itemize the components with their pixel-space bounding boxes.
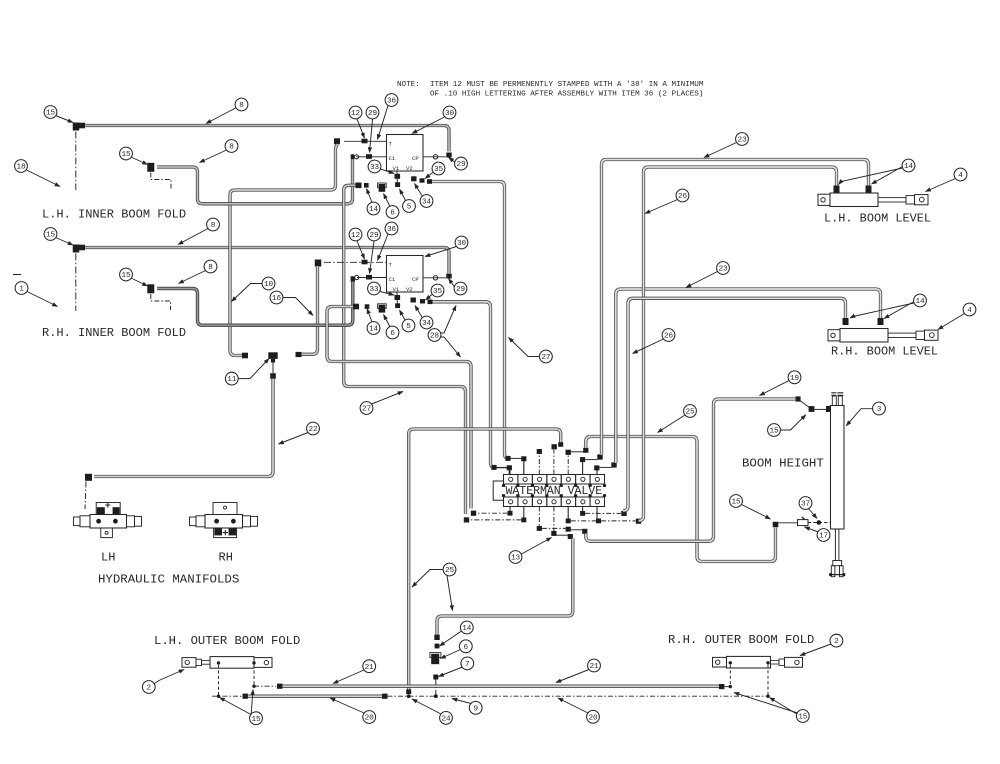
svg-text:C1: C1 bbox=[389, 155, 396, 162]
bubble 19 bbox=[788, 371, 801, 384]
bubble 27a bbox=[360, 402, 373, 415]
leader 21a bbox=[333, 670, 364, 684]
hose 21 left end fitting bbox=[277, 684, 282, 689]
dashed drop RH port1 bbox=[729, 665, 731, 685]
leader 15b bbox=[131, 157, 148, 165]
bubble 14a bbox=[367, 202, 380, 215]
dash-dot riser port4 bottom bbox=[553, 507, 555, 532]
bubble 15f bbox=[250, 712, 263, 725]
hose 26a port fitting at cylinder bbox=[834, 186, 840, 193]
tick mark left of item 1 bbox=[13, 274, 21, 276]
svg-text:8: 8 bbox=[208, 264, 213, 272]
leader 37 bbox=[809, 509, 818, 519]
RH boom level cylinder bbox=[828, 329, 938, 343]
leader 34a bbox=[415, 184, 423, 197]
elbow fitting at bottom of U2 V2 hose bbox=[491, 465, 496, 470]
hose end fitting of U1 bottom stub bbox=[356, 183, 362, 189]
hose 26 RH boom level inner bbox=[623, 298, 846, 511]
leader 14d-2 bbox=[884, 302, 914, 319]
elbow fitting at U2 C1 bbox=[351, 276, 355, 281]
tee fitting 12 on U2 T line bbox=[362, 260, 368, 265]
leader 15g bbox=[742, 505, 771, 520]
hose end fitting above U2 CP bbox=[446, 274, 451, 279]
valve U2 body bbox=[387, 256, 424, 293]
leader 8c bbox=[178, 229, 208, 245]
leader 25a-2 bbox=[447, 576, 453, 611]
svg-text:14: 14 bbox=[369, 206, 379, 214]
leader 15e bbox=[780, 415, 805, 430]
leader 13 bbox=[522, 538, 552, 555]
bubble 23a bbox=[736, 133, 749, 146]
svg-text:27: 27 bbox=[541, 354, 551, 362]
link p7 right bbox=[599, 466, 611, 468]
hose end fitting at tee left bbox=[242, 353, 248, 359]
valve U2 V1 stub bbox=[396, 292, 398, 295]
leader 33b bbox=[380, 292, 394, 296]
hose 22 down to LH manifold bbox=[94, 379, 273, 477]
bubble 21a bbox=[363, 660, 376, 673]
bubble 21b bbox=[588, 659, 601, 672]
bubble 12b bbox=[349, 228, 362, 241]
tee fitting 12 on U1 T line bbox=[362, 139, 368, 144]
svg-text:24: 24 bbox=[441, 716, 451, 724]
valve U1 T port line bbox=[344, 140, 387, 142]
dashed link tee to cylinder bbox=[808, 522, 831, 524]
svg-text:29: 29 bbox=[456, 161, 466, 169]
bubble 15d bbox=[120, 268, 133, 281]
bubble 29c bbox=[368, 228, 381, 241]
leader 10 bbox=[232, 284, 263, 302]
bubble 29b bbox=[455, 157, 468, 170]
fitting 5 at U2 V1 lower bbox=[395, 303, 400, 308]
bubble 3 bbox=[873, 402, 886, 415]
bubble 20a bbox=[363, 711, 376, 724]
link p6 right bbox=[585, 459, 597, 461]
svg-text:L.H. BOOM LEVEL: L.H. BOOM LEVEL bbox=[824, 212, 931, 226]
dash-dot p3b right bbox=[542, 527, 566, 529]
leader 3 bbox=[846, 409, 872, 426]
boom height cylinder item 3 bbox=[829, 393, 845, 577]
dash-dot p7b right bbox=[601, 520, 636, 522]
tee fitting item 11 bbox=[268, 352, 277, 359]
fitting 15b bbox=[147, 163, 154, 172]
bubble 10 bbox=[262, 277, 275, 290]
leader 28-2 bbox=[441, 337, 461, 357]
bubble 23b bbox=[717, 262, 730, 275]
leader 14c-2 bbox=[872, 167, 903, 185]
leader 26a bbox=[645, 200, 678, 214]
hose end fitting above item 14 stack bbox=[434, 635, 439, 640]
hose end fitting upper-left bbox=[79, 123, 85, 129]
leader 26b bbox=[633, 339, 664, 354]
svg-text:4: 4 bbox=[967, 307, 972, 315]
dashed drop RH port2 bbox=[767, 665, 769, 695]
svg-text:LH: LH bbox=[101, 551, 115, 565]
bubble 15h bbox=[796, 710, 809, 723]
link p4b right bbox=[556, 534, 568, 536]
bubble 37 bbox=[799, 497, 812, 510]
svg-text:2: 2 bbox=[147, 685, 152, 693]
elbow fitting at hose 22 left end bbox=[85, 474, 92, 481]
elbow fitting above port4 bbox=[552, 444, 557, 449]
valve U2 T port line bbox=[324, 261, 387, 263]
svg-text:20: 20 bbox=[365, 715, 375, 723]
leader 28-1 bbox=[441, 306, 456, 334]
leader 6a bbox=[384, 194, 391, 207]
round fitting at U1 C1 left bbox=[354, 155, 358, 159]
hose 20 left end fitting bbox=[243, 694, 248, 699]
bubble 5b bbox=[402, 319, 415, 332]
dash-dot link hose21 to RH drop bbox=[724, 686, 730, 688]
svg-text:23: 23 bbox=[737, 137, 747, 145]
leader 5b bbox=[400, 310, 406, 321]
riser port6 top bbox=[582, 462, 584, 475]
hose 23b port fitting at cylinder bbox=[878, 318, 884, 325]
leader 29b bbox=[449, 158, 455, 163]
leader 14b bbox=[367, 309, 372, 323]
round fitting at U1 CP bbox=[433, 155, 437, 159]
svg-text:5: 5 bbox=[407, 204, 412, 212]
leader 6c bbox=[441, 650, 461, 659]
bubble 20b bbox=[587, 710, 600, 723]
dash-dot line y696 bbox=[212, 695, 242, 697]
bubble 1 bbox=[15, 282, 28, 295]
hose end at port4 elbow bbox=[558, 442, 563, 447]
svg-text:22: 22 bbox=[308, 426, 318, 434]
svg-text:21: 21 bbox=[365, 664, 375, 672]
LH boom level cylinder bbox=[818, 193, 928, 207]
hose 19 end fitting bbox=[795, 396, 800, 401]
coupler item 6 lower bbox=[378, 304, 387, 309]
dash-dot from hose 22 elbow to LH manifold bbox=[85, 482, 86, 510]
riser port5 bottom bbox=[567, 507, 569, 519]
svg-text:6: 6 bbox=[390, 330, 395, 338]
svg-text:37: 37 bbox=[801, 501, 811, 509]
bubble 4b bbox=[963, 303, 976, 316]
valve U1 C1 port line bbox=[356, 156, 387, 158]
svg-text:R.H. INNER BOOM FOLD: R.H. INNER BOOM FOLD bbox=[42, 326, 186, 340]
riser port7 top bbox=[596, 470, 598, 474]
hose end fitting at U2 T line left bbox=[315, 260, 322, 267]
bubble 11 bbox=[225, 372, 238, 385]
hose 8 lower long run to valve U2 CP bbox=[80, 248, 449, 274]
leader 15f-1 bbox=[220, 698, 252, 715]
leader 16 bbox=[283, 298, 313, 316]
adapter fitting 14a bbox=[364, 183, 369, 188]
bubble 30a bbox=[443, 106, 456, 119]
adapter fitting 14 bottom stack bbox=[435, 644, 440, 649]
bubble 2b bbox=[830, 634, 843, 647]
bubble 18 bbox=[15, 160, 28, 173]
bubble 27b bbox=[540, 350, 553, 363]
dash-dot riser port5 top bbox=[567, 455, 569, 475]
leader 19 bbox=[760, 381, 790, 396]
svg-text:33: 33 bbox=[369, 286, 379, 294]
hose 23a port fitting at cylinder bbox=[866, 186, 872, 193]
leader 36b bbox=[378, 234, 389, 261]
bubble 2a bbox=[142, 681, 155, 694]
riser down to port 2 top bbox=[523, 461, 525, 474]
elbow 26a fitting bbox=[636, 519, 641, 524]
bubble 34b bbox=[420, 316, 433, 329]
fitting item 7 bbox=[433, 675, 438, 680]
leader 21b bbox=[556, 670, 589, 683]
link elbow to riser fitting p2 bbox=[511, 457, 522, 459]
nut fitting at U1 C1 left bbox=[351, 154, 355, 159]
riser fitting above port 1 bbox=[507, 465, 512, 470]
hose end fitting of U1 V2 hose bbox=[427, 179, 432, 184]
round fitting item 37 bbox=[817, 520, 822, 525]
bubble 24 bbox=[440, 712, 453, 725]
tee fitting 29 on U1 C1 line bbox=[366, 154, 372, 159]
svg-text:L.H. INNER BOOM FOLD: L.H. INNER BOOM FOLD bbox=[42, 208, 186, 222]
leader 29d bbox=[449, 279, 455, 288]
svg-text:19: 19 bbox=[790, 375, 800, 383]
hose 28 from U2 V2 right and down to port 1 bbox=[433, 302, 495, 468]
svg-text:15: 15 bbox=[731, 499, 741, 507]
fitting above port5 bbox=[566, 450, 571, 455]
leader 36a bbox=[378, 106, 389, 140]
hose from U2 T port down and left bbox=[301, 266, 318, 354]
valve U2 CP port line bbox=[423, 277, 446, 279]
valve U2 V1 lower stub bbox=[396, 300, 398, 303]
fitting below port4 bbox=[551, 531, 556, 536]
leader 11 bbox=[238, 359, 269, 379]
valve U1 V1 lower stub bbox=[396, 179, 398, 183]
hose end fitting at U1 T line left bbox=[334, 138, 340, 144]
leader 12a bbox=[357, 119, 365, 138]
valve U1 CP port line bbox=[423, 156, 446, 158]
bubble 14e bbox=[460, 621, 473, 634]
svg-text:15: 15 bbox=[46, 110, 56, 118]
hose 8 from fitting 15d to U2 C1 bbox=[157, 289, 348, 326]
bubble 15b bbox=[120, 147, 133, 160]
bubble 22 bbox=[307, 422, 320, 435]
dash-dot riser port4 top bbox=[553, 450, 555, 475]
bubble 7 bbox=[461, 657, 474, 670]
junction dot RH drop 1 bbox=[729, 685, 732, 688]
leader 14e bbox=[440, 631, 462, 646]
svg-text:15: 15 bbox=[46, 232, 56, 240]
svg-text:14: 14 bbox=[904, 163, 914, 171]
hose from U1 T port down and left bbox=[230, 144, 338, 355]
hose end fitting lower-left bbox=[79, 245, 85, 251]
fitting below port7 bbox=[596, 519, 601, 524]
svg-text:L.H. OUTER BOOM FOLD: L.H. OUTER BOOM FOLD bbox=[154, 634, 300, 648]
svg-text:27: 27 bbox=[362, 406, 372, 414]
svg-text:1: 1 bbox=[19, 286, 24, 294]
svg-text:7: 7 bbox=[465, 661, 470, 669]
link p1 left bbox=[497, 467, 508, 469]
fitting 15d bbox=[147, 284, 154, 293]
port fitting at boom height top bbox=[826, 406, 831, 412]
svg-text:13: 13 bbox=[511, 555, 521, 563]
link hose end to tee 17 bbox=[778, 522, 797, 524]
bubble 15a bbox=[44, 106, 57, 119]
valve U2 C1 port line bbox=[357, 277, 387, 279]
leader 12b bbox=[357, 241, 365, 259]
leader 2a bbox=[155, 670, 185, 684]
svg-text:18: 18 bbox=[16, 164, 26, 172]
RH outer boom fold cylinder bbox=[713, 656, 803, 668]
adapter fitting 14b bbox=[365, 304, 370, 309]
dash-dot item7 to bottom line bbox=[435, 680, 437, 697]
hose end fitting p5 chain bbox=[583, 448, 588, 453]
hose 23b end elbow bbox=[611, 462, 616, 467]
hose end fitting p3b chain bbox=[582, 529, 587, 534]
bubble 5a bbox=[403, 200, 416, 213]
hose 25 upper run from bottom junction to port 4 bbox=[409, 429, 561, 690]
svg-text:6: 6 bbox=[464, 644, 469, 652]
leader 30b bbox=[425, 247, 457, 257]
bubble 6c bbox=[459, 640, 472, 653]
fitting above port6 bbox=[580, 457, 585, 462]
bubble 6b bbox=[386, 326, 399, 339]
svg-text:6: 6 bbox=[390, 210, 395, 218]
hose 25 lower run from port4 to LH outer fold items bbox=[437, 539, 573, 635]
leader 15h-1 bbox=[734, 693, 798, 714]
svg-text:14: 14 bbox=[369, 326, 379, 334]
hose 20 right end fitting bbox=[382, 694, 387, 699]
fitting below port2 bbox=[521, 518, 526, 523]
valve U1 body bbox=[387, 135, 424, 172]
link p5 right bbox=[571, 451, 584, 453]
riser port7 bottom bbox=[596, 507, 598, 519]
svg-text:R.H. OUTER BOOM FOLD: R.H. OUTER BOOM FOLD bbox=[668, 633, 814, 647]
svg-text:CP: CP bbox=[412, 155, 419, 162]
leader 15a bbox=[56, 116, 74, 123]
dash-dot drop below fitting 15 lower bbox=[75, 254, 77, 312]
junction dot LH drop 1 bbox=[217, 695, 220, 698]
bubble 28 bbox=[428, 329, 441, 342]
fitting above port3 bbox=[537, 449, 542, 454]
hose from port5 to boom height lower port bbox=[586, 437, 776, 562]
bubble 14c bbox=[902, 159, 915, 172]
junction dot item 9 chain bbox=[434, 694, 438, 698]
elbow fitting at bottom of U1 V2 hose bbox=[505, 456, 510, 461]
bubble 12a bbox=[349, 106, 362, 119]
fitting p3b mid bbox=[566, 527, 571, 532]
leader 34b bbox=[415, 306, 423, 319]
svg-text:V2: V2 bbox=[406, 165, 413, 172]
svg-text:34: 34 bbox=[422, 199, 432, 207]
leader 23b bbox=[686, 272, 718, 288]
hose 27 from U1 bottom stub down to port 3 riser bbox=[344, 185, 466, 514]
bubble 36b bbox=[385, 222, 398, 235]
svg-text:26: 26 bbox=[664, 333, 674, 341]
svg-text:15: 15 bbox=[121, 272, 131, 280]
leader 33a bbox=[381, 169, 395, 174]
bubble 36a bbox=[385, 94, 398, 107]
elbow fitting p2b bbox=[464, 517, 469, 522]
leader 7 bbox=[439, 667, 463, 677]
svg-text:17: 17 bbox=[819, 533, 829, 541]
svg-text:28: 28 bbox=[430, 333, 440, 341]
fitting below port6 bbox=[580, 511, 585, 516]
svg-text:25: 25 bbox=[445, 567, 455, 575]
bubble 14d bbox=[914, 294, 927, 307]
dash-dot riser port3 bottom bbox=[538, 507, 540, 527]
hose 21 long run bbox=[282, 685, 719, 688]
bubble 35b bbox=[431, 284, 444, 297]
svg-text:36: 36 bbox=[387, 98, 397, 106]
hose end fitting of U2 bottom stub bbox=[353, 304, 359, 310]
link elbow to riser fitting p1 bbox=[497, 466, 508, 468]
svg-text:23: 23 bbox=[718, 266, 728, 274]
bubble 30b bbox=[455, 236, 468, 249]
svg-text:HYDRAULIC MANIFOLDS: HYDRAULIC MANIFOLDS bbox=[98, 573, 239, 587]
bubble 29d bbox=[454, 282, 467, 295]
dash-dot long link y696 to RH port2 bbox=[388, 695, 769, 697]
tee fitting item 17 bbox=[798, 520, 809, 526]
svg-text:11: 11 bbox=[227, 376, 237, 384]
dash-dot p2b left bbox=[470, 519, 522, 521]
bubble 15g bbox=[730, 495, 743, 508]
tee fitting 15 lower-left bbox=[73, 245, 80, 253]
dash-dot riser port3 top bbox=[538, 454, 540, 475]
LH outer boom fold cylinder bbox=[182, 657, 272, 669]
dash-dot p1b left bbox=[477, 512, 508, 514]
leader 1 bbox=[27, 292, 58, 307]
hose 26b port fitting at cylinder bbox=[843, 318, 849, 325]
bubble 25a bbox=[443, 563, 456, 576]
svg-text:OF .10 HIGH LETTERING AFTER AS: OF .10 HIGH LETTERING AFTER ASSEMBLY WIT… bbox=[430, 91, 703, 99]
svg-text:ITEM 12 MUST BE PERMENENTLY ST: ITEM 12 MUST BE PERMENENTLY STAMPED WITH… bbox=[430, 81, 704, 89]
round fitting at U2 C1 left bbox=[355, 275, 359, 279]
tee fitting 29 on U2 C1 line bbox=[366, 275, 372, 280]
leader 8b bbox=[200, 150, 227, 163]
bubble 4a bbox=[954, 168, 967, 181]
bubble 26b bbox=[662, 329, 675, 342]
hose end fitting at boom height lower bbox=[773, 522, 779, 527]
leader 14c-1 bbox=[839, 168, 903, 185]
fitting below port1 bbox=[508, 511, 513, 516]
leader 8d bbox=[179, 271, 206, 284]
riser port1 bottom bbox=[509, 507, 511, 512]
svg-text:33: 33 bbox=[370, 164, 380, 172]
leader 24 bbox=[412, 699, 441, 714]
svg-text:15: 15 bbox=[798, 714, 808, 722]
hose end fitting p4b chain bbox=[568, 534, 573, 539]
leader 29a bbox=[370, 119, 373, 153]
junction dot item 24 bbox=[407, 694, 411, 698]
svg-text:WATERMAN VALVE: WATERMAN VALVE bbox=[506, 485, 603, 498]
fitting 5 at U1 V1 lower bbox=[395, 182, 400, 187]
svg-text:29: 29 bbox=[368, 110, 378, 118]
leader 8a bbox=[206, 108, 237, 124]
fitting p1 junction bbox=[508, 467, 510, 469]
leader 6b bbox=[384, 315, 391, 328]
svg-text:5: 5 bbox=[406, 323, 411, 331]
leader 4b bbox=[938, 314, 965, 330]
svg-text:12: 12 bbox=[351, 110, 361, 118]
fitting below tee bbox=[270, 373, 276, 379]
hose 21 right end fitting bbox=[719, 684, 724, 689]
fitting above port7 bbox=[594, 465, 599, 470]
round fitting at U2 CP bbox=[433, 276, 437, 280]
leader 9 bbox=[452, 699, 471, 704]
dashed drop LH port2 bbox=[253, 665, 255, 685]
svg-text:4: 4 bbox=[958, 172, 963, 180]
hose 28 from U1 V2 right and down to port 2 bbox=[432, 182, 508, 459]
svg-text:15: 15 bbox=[251, 716, 261, 724]
elbow fitting at U1 V2 bbox=[411, 176, 416, 181]
RH hydraulic manifold bbox=[190, 503, 258, 538]
hose end fitting of U2 V2 hose bbox=[428, 300, 433, 305]
svg-text:15: 15 bbox=[769, 428, 779, 436]
hose from port3 to boom height top port bbox=[586, 399, 795, 541]
leader 15d bbox=[131, 278, 148, 286]
